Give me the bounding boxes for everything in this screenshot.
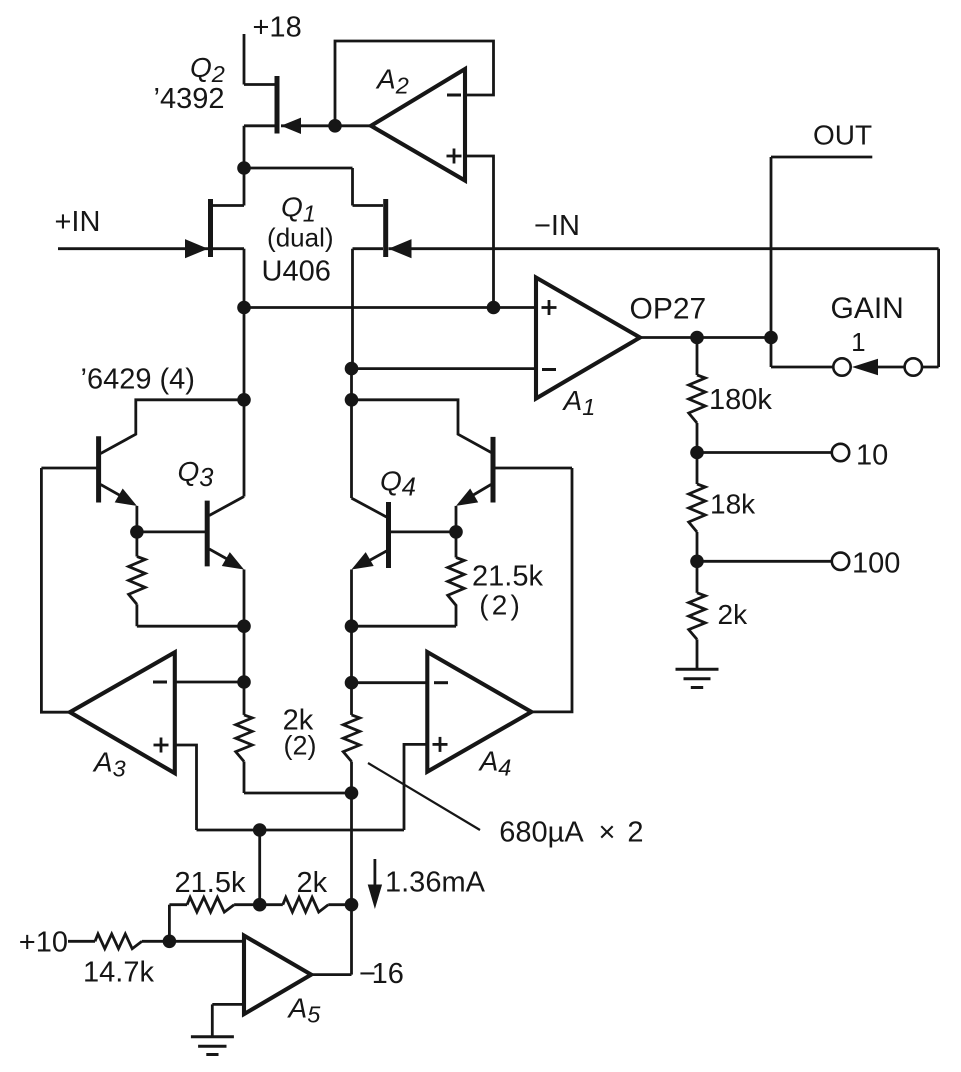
wire 21.5k left leg	[168, 905, 171, 942]
transistor Q3 upper '6429	[96, 436, 101, 502]
svg-text:−IN: −IN	[534, 210, 580, 242]
wire Q3 upper emitter	[101, 485, 137, 532]
minus sign A3	[153, 681, 167, 684]
label gain 1	[851, 327, 865, 357]
arrowhead Q3 lower emitter	[222, 552, 244, 569]
wire 180k top	[696, 338, 699, 376]
wire +18 to Q2 drain	[244, 34, 275, 85]
wire OUT	[771, 157, 872, 367]
label 180k	[709, 384, 772, 416]
wire A4 + input	[404, 744, 427, 830]
svg-text:+IN: +IN	[55, 206, 101, 238]
node 180k top junction	[690, 331, 704, 345]
arrowhead Q3 upper emitter	[115, 489, 137, 506]
transistor Q4 upper '6429	[491, 437, 496, 503]
wire Q4 emitter bus	[352, 625, 457, 628]
node OUT junction	[764, 331, 778, 345]
svg-text:(2): (2)	[479, 590, 523, 621]
current arrow 1.36mA	[368, 859, 382, 909]
resistor 21.5k bottom	[169, 897, 253, 912]
wire Q1 left source to Q3	[243, 308, 246, 497]
svg-text:100: 100	[852, 547, 900, 579]
svg-text:’4392: ’4392	[154, 83, 225, 115]
label 680uA x 2	[499, 816, 643, 848]
svg-text:(dual): (dual)	[267, 223, 333, 253]
label GAIN	[831, 292, 904, 325]
label 2k bottom	[297, 867, 328, 899]
node A1 + junction	[237, 301, 251, 315]
op-amp A4	[427, 652, 531, 772]
wire Q4 upper emitter	[456, 485, 491, 532]
minus sign A2	[447, 94, 461, 97]
resistor 180k	[689, 375, 706, 423]
node A5 + junction	[163, 935, 177, 949]
svg-text:+10: +10	[19, 926, 68, 958]
wire Q2 gate from A2 output	[281, 124, 371, 127]
wire Q4 lower base	[391, 531, 457, 534]
node Q3 base junction	[130, 525, 144, 539]
wire Q3 lower collector	[209, 497, 244, 516]
wire -IN input	[389, 247, 939, 250]
node Q3 collector junction	[237, 393, 251, 407]
label (2) right	[479, 590, 523, 621]
svg-text:14.7k: 14.7k	[83, 956, 154, 988]
transistor Q3 lower '6429	[205, 501, 210, 567]
wire sum node down	[350, 793, 353, 975]
node A4 - junction	[345, 676, 359, 690]
wire Q1 left source	[213, 249, 244, 308]
node A1 - junction	[345, 362, 359, 376]
label OUT	[813, 120, 872, 151]
label 18k	[710, 489, 756, 520]
resistor 2k pair left	[236, 682, 253, 793]
arrowhead Q4 lower emitter	[352, 552, 374, 569]
label A4	[478, 746, 512, 781]
node Q4 collector junction	[345, 393, 359, 407]
wire switch left	[771, 366, 833, 369]
wire A5 + input	[169, 940, 244, 943]
wire 2k to ground	[696, 639, 699, 669]
label 2k pair	[283, 705, 314, 737]
label A1	[562, 385, 596, 420]
label 14.7k	[83, 956, 154, 988]
label U406	[262, 256, 331, 288]
wire Q4 emitter to A4 -	[350, 626, 353, 683]
label -16	[359, 958, 404, 990]
svg-text:18k: 18k	[710, 489, 756, 520]
label 21.5k right	[472, 560, 543, 592]
wire Q4 upper collector	[352, 400, 494, 454]
pointer line 680uA	[368, 763, 480, 830]
wire 180k to 10 tap	[696, 423, 699, 484]
minus sign A1	[542, 368, 556, 371]
arrowhead Q2 gate	[281, 118, 301, 134]
arrowhead Q4 upper emitter	[456, 489, 478, 506]
wire -IN corner to switch	[922, 249, 939, 367]
svg-text:U406: U406	[262, 256, 331, 288]
resistor 18k	[689, 484, 706, 532]
node gain-100 tap	[690, 555, 704, 569]
resistor 2k pair right	[343, 683, 360, 793]
arrowhead Q1 left gate	[185, 239, 208, 258]
node A3 - junction	[237, 675, 251, 689]
switch wiper arrow	[852, 359, 905, 375]
wire 2k bottoms link	[244, 792, 352, 795]
node sum junction	[345, 898, 359, 912]
label 10	[856, 439, 888, 471]
wire Q1 drains link	[244, 168, 383, 206]
wire Q1 left drain	[213, 168, 244, 206]
label Q2	[190, 52, 225, 87]
label +IN	[55, 206, 101, 238]
svg-text:680µA: 680µA	[499, 816, 584, 848]
label A2	[375, 63, 409, 98]
node gain-10 tap	[690, 446, 704, 460]
op-amp A2	[371, 69, 465, 181]
label 21.5k bottom	[175, 867, 246, 899]
label (2) pair	[284, 731, 317, 761]
svg-text:2k: 2k	[297, 867, 328, 899]
label '4392	[154, 83, 225, 115]
transistor Q4 lower '6429	[386, 502, 391, 568]
wire A1 - input	[352, 367, 537, 370]
label (dual)	[267, 223, 333, 253]
svg-text:1.36mA: 1.36mA	[385, 867, 486, 899]
label A3	[92, 747, 126, 782]
wire +IN input	[58, 247, 208, 250]
label Q4	[380, 466, 416, 502]
resistor 2k bottom	[266, 897, 345, 912]
svg-text:21.5k: 21.5k	[472, 560, 543, 592]
wire A3+/A4+ bus	[197, 829, 405, 832]
plus sign A1	[542, 300, 557, 315]
transistor Q1 left JFET	[208, 199, 213, 257]
wire A3 - input	[175, 681, 244, 684]
wire Q4 lower collector	[352, 498, 387, 517]
label +10	[19, 926, 68, 958]
resistor 21.5k left	[129, 532, 146, 626]
svg-text:(2): (2)	[284, 731, 317, 761]
wire 18k to 100 tap	[696, 532, 699, 593]
wire A2 + input to node	[465, 156, 494, 308]
node A2 + tap	[487, 301, 501, 315]
terminal gain-100	[832, 553, 849, 570]
wire Q1 right source to Q4	[350, 369, 353, 499]
wire Q3 upper collector	[101, 400, 244, 454]
svg-text:10: 10	[856, 439, 888, 471]
svg-text:1: 1	[851, 327, 865, 357]
wire bus tap down	[258, 830, 261, 905]
node 2k bottom junction	[345, 786, 359, 800]
wire +10 input	[68, 940, 95, 943]
wire Q4 upper base	[493, 467, 572, 470]
wire Q3 emitter bus	[137, 625, 244, 628]
node Q4 emitter junction	[345, 619, 359, 633]
node Q1 drain junction	[237, 161, 251, 175]
svg-text:21.5k: 21.5k	[175, 867, 246, 899]
node Q3 emitter junction	[237, 619, 251, 633]
wire A5 - input	[212, 1004, 244, 1036]
wire Q2 source	[244, 126, 275, 168]
wire A3 output loop	[41, 468, 70, 712]
wire A3 + input	[175, 745, 197, 830]
resistor 2k chain	[689, 593, 706, 640]
node bus tap	[253, 823, 267, 837]
wire A1 output	[640, 336, 771, 339]
wire A4 - input	[352, 681, 428, 684]
svg-text:’6429 (4): ’6429 (4)	[81, 364, 195, 396]
wire Q3 lower base	[137, 531, 205, 534]
wire Q3 lower emitter	[209, 549, 244, 626]
svg-text:180k: 180k	[709, 384, 772, 416]
label Q1	[281, 192, 316, 227]
svg-text:+18: +18	[253, 11, 302, 43]
label A5	[287, 993, 322, 1028]
svg-text:2k: 2k	[718, 599, 749, 630]
node 21.5k/2k junction	[253, 898, 267, 912]
node Q4 base junction	[449, 525, 463, 539]
transistor Q1 right JFET	[383, 199, 388, 257]
op-amp A5	[244, 936, 311, 1015]
svg-text:GAIN: GAIN	[831, 292, 904, 325]
label +18 supply	[253, 11, 302, 43]
arrowhead Q1 right gate	[389, 239, 412, 258]
node A2 output junction	[328, 119, 342, 133]
plus sign A3	[154, 738, 169, 753]
svg-text:2: 2	[627, 816, 643, 848]
wire Q4 lower emitter	[352, 551, 387, 626]
svg-text:OUT: OUT	[813, 120, 872, 151]
wire Q1 right source	[353, 249, 384, 369]
ground A5	[191, 1037, 234, 1055]
svg-text:16: 16	[372, 958, 404, 990]
label 1.36mA	[385, 867, 486, 899]
label -IN	[534, 210, 580, 242]
svg-text:×: ×	[599, 816, 616, 848]
svg-text:OP27: OP27	[630, 292, 707, 325]
transistor Q2 '4392 JFET	[275, 76, 280, 134]
wire A4 output loop	[531, 468, 572, 712]
resistor 21.5k right	[448, 532, 465, 626]
op-amp A1	[536, 278, 640, 399]
terminal gain-1 right contact	[905, 358, 922, 375]
label OP27	[630, 292, 707, 325]
op-amp A3	[70, 652, 175, 773]
label 100	[852, 547, 900, 579]
wire A5 output	[311, 973, 351, 976]
ground chain	[676, 669, 719, 687]
label 2k chain	[718, 599, 749, 630]
wire 100 tap	[697, 560, 833, 563]
plus sign A4	[433, 737, 448, 752]
resistor 14.7k	[95, 934, 169, 949]
label '6429 (4)	[81, 364, 195, 396]
plus sign A2	[447, 149, 462, 164]
minus sign A4	[434, 681, 448, 684]
wire Q3 emitter to A3 -	[243, 626, 246, 682]
wire A2 feedback loop	[335, 41, 494, 126]
wire A1 + input	[244, 306, 536, 309]
label Q3	[178, 456, 214, 492]
terminal gain-1 left contact	[833, 358, 850, 375]
terminal gain-10	[832, 444, 849, 461]
wire Q3 upper base	[41, 467, 98, 470]
wire 10 tap	[697, 451, 833, 454]
